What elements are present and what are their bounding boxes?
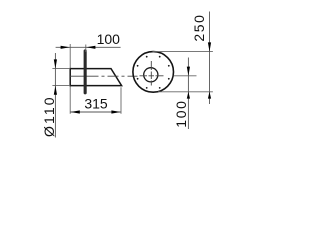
vertical crosshair of inner circle bbox=[150, 61, 152, 86]
svg-text:100: 100 bbox=[97, 31, 121, 47]
horizontal crosshair of inner circle bbox=[140, 75, 164, 77]
arrow up to body bottom bbox=[54, 86, 57, 95]
dimension Ø110 extension lines bbox=[52, 68, 70, 70]
arrow up to bottom tangent bbox=[208, 92, 211, 99]
centre extension line to the right bbox=[174, 75, 197, 77]
plate extension tick for top dimension bbox=[85, 45, 87, 53]
dimension line 100 (right, vertical) bbox=[187, 58, 189, 130]
svg-text:250: 250 bbox=[191, 13, 207, 41]
inner circle (spout tube) bbox=[144, 68, 158, 82]
bottom tangent extension line bbox=[158, 91, 213, 93]
top tangent extension line bbox=[152, 51, 213, 53]
left extension line (body left edge extended up and down) bbox=[69, 44, 71, 114]
escutcheon outer circle (front view) bbox=[133, 52, 174, 93]
arrow left of 315 dim bbox=[71, 110, 80, 113]
arrow right of 100 dim bbox=[86, 46, 95, 49]
centre line of spout body (dash-dot) bbox=[70, 75, 138, 77]
arrow down to top tangent bbox=[208, 42, 211, 51]
svg-text:100: 100 bbox=[173, 100, 189, 128]
dimension line Ø110 (vertical) bbox=[54, 53, 56, 138]
escutcheon plate (edge view, dark bar) bbox=[84, 49, 87, 94]
arrow down to body top bbox=[54, 59, 57, 68]
dimension line 315 (bottom) bbox=[70, 111, 121, 113]
arrow left of 100 dim bbox=[61, 46, 70, 49]
svg-text:315: 315 bbox=[84, 95, 108, 111]
dimension line 100 (top) bbox=[56, 46, 121, 48]
spout body outline (side view) bbox=[70, 69, 121, 86]
arrow right of 315 dim bbox=[111, 110, 120, 113]
8 fixing holes bbox=[137, 56, 170, 89]
arrow down to centre line bbox=[187, 67, 190, 76]
svg-text:Ø110: Ø110 bbox=[41, 95, 57, 137]
dimension line 250 (vertical) bbox=[209, 12, 211, 105]
arrow up to bottom line bbox=[187, 92, 190, 99]
right extension line for 315 bbox=[120, 87, 122, 114]
